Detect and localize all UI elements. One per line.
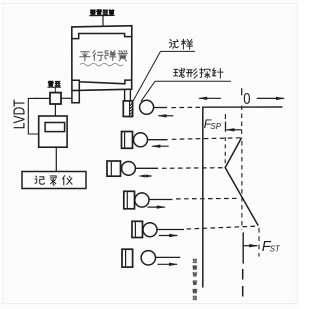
frame box outer (72, 26, 132, 91)
svg-text:0: 0 (243, 91, 250, 108)
right motion arrow near origin (257, 97, 284, 99)
LVDT body box (39, 116, 67, 147)
row3 motion arrow (double) (140, 175, 152, 177)
wire body to recorder (55, 147, 57, 171)
Fst dashed guide line (258, 228, 260, 257)
iron-core tiny label (47, 81, 61, 92)
Fst arrow (244, 245, 258, 247)
Fsp label (204, 117, 222, 131)
row5 probe assembly (132, 221, 143, 237)
LVDT body inner window (45, 123, 65, 132)
bottom dashed continuation of centre line (242, 269, 244, 300)
vertical axis caption (tiny chars) (193, 259, 197, 299)
LVDT bracket (28, 98, 39, 134)
wire core to leg (61, 97, 72, 99)
parallel-spring text 平行弹簧 (80, 51, 128, 66)
row4 motion arrow (right) (148, 206, 165, 208)
row6 probe assembly (detached) (122, 249, 133, 267)
Fst reference tick (242, 233, 244, 264)
dashed centre line (zero force) (241, 106, 243, 138)
wire core down to body (54, 104, 56, 116)
left motion arrow near origin (199, 97, 221, 99)
wire bracket to core (34, 97, 50, 99)
probe label 球形探针 (155, 68, 231, 81)
row3 probe assembly (107, 161, 121, 176)
Fsp dashed guide line (224, 114, 226, 119)
drive-unit label (4 tiny chars) (89, 10, 114, 16)
left leg (72, 82, 79, 103)
svg-text:SP: SP (210, 122, 221, 131)
chart vertical axis (202, 107, 204, 288)
row2 probe assembly (122, 132, 133, 149)
force profile (stick-slip sawtooth) (225, 138, 258, 226)
row1 specimen block (hatched) (123, 101, 132, 117)
svg-text:LVDT: LVDT (10, 99, 28, 129)
LVDT core box (50, 93, 61, 104)
specimen leader (132, 51, 161, 103)
row6 motion arrow (right) (158, 263, 178, 265)
probe leader (141, 81, 155, 101)
Fst label (262, 239, 281, 255)
specimen label 试样 (161, 39, 196, 51)
row1 motion arrow (left) (159, 115, 174, 117)
leader from drive label to frame (102, 16, 104, 27)
chart horizontal axis (202, 106, 282, 108)
recorder box (22, 172, 86, 189)
row2 motion arrow (left) (152, 145, 168, 147)
right leg (124, 89, 126, 101)
row5 motion arrow (right) (159, 235, 177, 237)
frame bottom bar (72, 80, 132, 84)
row4 probe assembly (124, 191, 135, 209)
Fsp arrow (227, 129, 242, 131)
recorder text 记录仪 (35, 176, 72, 185)
origin tick (241, 88, 243, 95)
frame top yoke (72, 34, 132, 39)
svg-text:ST: ST (270, 244, 281, 253)
